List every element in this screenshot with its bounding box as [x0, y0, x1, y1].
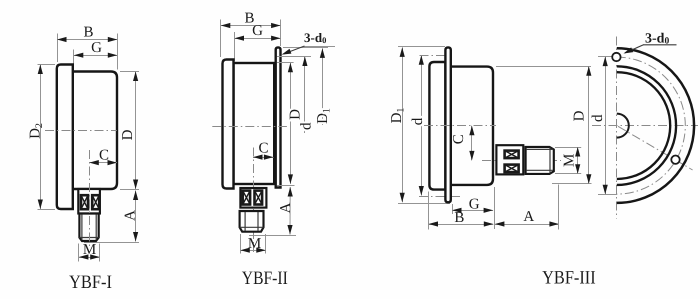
- wrench flat top: [505, 151, 519, 159]
- dim M extension right: [265, 234, 267, 254]
- svg-text:D: D: [120, 129, 136, 140]
- svg-text:YBF-III: YBF-III: [542, 268, 596, 289]
- thread line top: [527, 148, 553, 150]
- stem vertical centerline: [253, 148, 255, 253]
- svg-text:d: d: [410, 117, 426, 125]
- dim D line: [290, 63, 292, 184]
- thread line right: [257, 212, 259, 231]
- dim G line: [452, 210, 493, 212]
- svg-text:G: G: [91, 40, 102, 56]
- thread line bottom: [527, 169, 553, 171]
- dim M line: [79, 257, 100, 259]
- thread line left: [244, 212, 246, 231]
- horizontal centerline: [45, 130, 117, 132]
- hex wrench section: [240, 188, 266, 208]
- case body: [451, 67, 493, 185]
- dim A line: [495, 224, 559, 226]
- wrench flat right: [92, 195, 99, 209]
- dim G extension left: [234, 32, 236, 61]
- svg-text:M: M: [83, 242, 96, 258]
- dim M extension right: [99, 244, 101, 262]
- svg-text:A: A: [123, 210, 139, 221]
- svg-text:YBF-II: YBF-II: [242, 268, 288, 289]
- dim B/G extension line right: [117, 34, 119, 70]
- hex wrench section: [496, 145, 523, 174]
- thread line right: [95, 215, 97, 241]
- dim M extension top: [555, 147, 581, 149]
- gauge horizontal centerline: [424, 125, 496, 127]
- svg-text:A: A: [523, 209, 534, 225]
- svg-text:C: C: [258, 141, 268, 157]
- case inner arc: [617, 72, 670, 179]
- flange hole centerline top: [420, 55, 452, 57]
- dim D1 line (half): [322, 48, 324, 125]
- dim G line: [74, 55, 118, 57]
- wrench flat bottom: [505, 165, 519, 173]
- flange hole centerline / d top extension: [277, 56, 311, 58]
- dim C line: [471, 126, 473, 161]
- dim d line (half): [304, 57, 306, 134]
- leader 3-d0: [625, 45, 644, 53]
- center boss arc: [617, 114, 629, 138]
- dim d extension top: [598, 56, 612, 58]
- wrench flat left: [243, 191, 250, 205]
- dim D/A shared extension: [120, 189, 139, 191]
- dim A line: [135, 191, 137, 242]
- svg-text:G: G: [252, 23, 263, 39]
- dim B line: [429, 224, 494, 226]
- dim d line: [421, 55, 423, 195]
- hex wrench section: [78, 189, 100, 214]
- dim A line: [289, 187, 291, 235]
- svg-text:C: C: [451, 134, 467, 144]
- svg-text:M: M: [248, 236, 261, 252]
- svg-text:B: B: [83, 25, 93, 41]
- stem chamfer line: [240, 226, 264, 228]
- dim C line: [89, 162, 117, 164]
- dim B line: [221, 25, 281, 27]
- dim M line: [240, 250, 265, 252]
- threaded stem: [240, 211, 264, 232]
- flange hole centerline bottom: [419, 196, 460, 198]
- flange outer arc: [617, 48, 694, 203]
- svg-text:B: B: [454, 210, 464, 226]
- dim D2 extension bottom: [38, 209, 56, 211]
- dim B/G extension right: [280, 20, 282, 47]
- horizontal centerline: [212, 126, 287, 128]
- body top extension (D): [277, 62, 294, 64]
- dim M extension left: [240, 234, 242, 254]
- horizontal centerline: [592, 125, 698, 127]
- lower-right bolt hole: [671, 156, 679, 164]
- diagonal hole axis: [618, 126, 693, 170]
- vertical centerline: [89, 150, 91, 247]
- dim D extension top: [496, 66, 591, 68]
- dim D line: [588, 66, 590, 184]
- bolt circle (dash-dot): [617, 57, 686, 194]
- dim G extension left: [452, 204, 454, 214]
- case outer arc: [617, 66, 676, 185]
- svg-text:D: D: [287, 109, 303, 120]
- dim D1 extension bottom: [398, 203, 450, 205]
- back rim: [223, 60, 234, 189]
- stem bottom extension for A: [249, 235, 296, 237]
- dim D line: [135, 72, 137, 190]
- dim d line: [605, 57, 607, 195]
- svg-text:d: d: [590, 114, 606, 122]
- dim M extension left: [78, 244, 80, 262]
- dim D extension bottom: [552, 183, 592, 185]
- svg-text:C: C: [99, 148, 109, 164]
- dim G extension line left: [73, 50, 75, 70]
- dim G/B/A shared extension right: [494, 187, 496, 229]
- svg-text:M: M: [561, 154, 577, 167]
- flange plate: [445, 47, 450, 202]
- dim D2 line: [40, 65, 42, 210]
- dim B line: [57, 39, 117, 41]
- dim D2 extension top: [38, 64, 56, 66]
- dim C line: [253, 157, 273, 159]
- dim D1 extension top: [398, 46, 445, 48]
- dim A extension right: [558, 185, 560, 230]
- flange top extension (D1): [283, 47, 328, 49]
- leader shelf 3-d0: [304, 46, 335, 48]
- body bottom extension: [277, 185, 295, 187]
- dim D extension top: [120, 71, 139, 73]
- back rim: [57, 65, 73, 210]
- svg-text:D: D: [572, 110, 588, 121]
- dim d extension bottom: [598, 194, 617, 196]
- wrench flat left: [81, 195, 88, 209]
- svg-text:d: d: [298, 122, 314, 130]
- dim D1 line: [402, 47, 404, 202]
- threaded stem: [79, 214, 98, 242]
- dim M line: [577, 147, 579, 174]
- stem axis centerline: [482, 160, 561, 162]
- front flange plate: [276, 47, 281, 187]
- thread line left: [81, 215, 83, 241]
- dim B extension left: [428, 192, 430, 230]
- stem chamfer line: [79, 237, 98, 239]
- top bolt hole: [612, 53, 620, 61]
- bezel ring: [429, 62, 445, 190]
- wrench flat right: [255, 191, 263, 205]
- case body: [73, 72, 117, 190]
- svg-text:G: G: [469, 196, 480, 212]
- dim G line: [235, 38, 281, 40]
- dim B extension left: [220, 20, 222, 58]
- dim B extension line left: [57, 34, 59, 63]
- dim M extension bottom: [555, 173, 581, 175]
- vertical centerline: [616, 37, 618, 219]
- stem bottom extension for A: [84, 242, 139, 244]
- case body: [234, 63, 275, 184]
- leader 3-d0: [284, 46, 305, 54]
- threaded stem: [526, 147, 554, 174]
- stem chamfer line: [549, 148, 551, 174]
- svg-text:YBF-I: YBF-I: [69, 272, 112, 293]
- svg-text:A: A: [278, 202, 294, 213]
